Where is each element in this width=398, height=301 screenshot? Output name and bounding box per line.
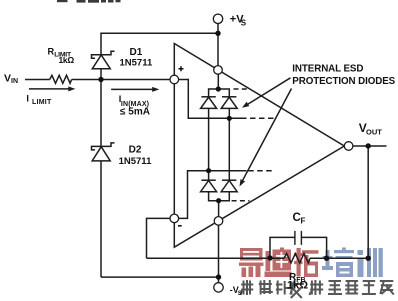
ESD diode triangle lower-right [221, 181, 237, 192]
svg-text:V: V [4, 72, 11, 84]
ILIMIT current arrow [29, 88, 69, 90]
svg-text:S: S [238, 290, 243, 297]
watermark row1 char tuo (red) [294, 248, 319, 277]
node: upper ESD cathode junction [216, 86, 221, 91]
watermark row2 slogan characters (gray) [241, 280, 394, 298]
op-amp +input pin circle [170, 75, 179, 84]
wire: output down to feedback row [367, 146, 369, 258]
svg-text:1N5711: 1N5711 [119, 156, 152, 167]
wire: rail to op-amp V+ pin [217, 33, 219, 65]
wire: CF branch left [270, 237, 295, 258]
node: +VS rail junction [215, 31, 220, 36]
wire: V+ pin to ESD cathode tee [217, 74, 219, 89]
wire: resistor to +input [72, 79, 171, 81]
svg-text:1N5711: 1N5711 [120, 57, 153, 68]
wire: -VS bottom rail [101, 276, 219, 278]
wire: -input internal to lower ESD row [179, 171, 247, 219]
wire: D1 anode to input node [100, 69, 102, 80]
op-amp V- pin circle [214, 217, 223, 226]
watermark row1 char di (red) [265, 248, 292, 278]
wire: output stub [353, 145, 387, 147]
label RFB [289, 272, 306, 284]
wire: top +VS rail [101, 33, 218, 54]
wire: V- pin to bottom rail [218, 225, 220, 277]
wire: -input external to feedback row [147, 218, 171, 258]
op-amp -input pin circle [170, 214, 179, 223]
ESD diode bar lower-right [222, 179, 236, 181]
watermark row1 char yi (red) [239, 248, 264, 277]
op-amp V+ pin circle [214, 66, 223, 75]
dashed continuation of V- net [232, 200, 250, 202]
node: feedback left junction [267, 255, 272, 260]
svg-text:OUT: OUT [366, 127, 382, 136]
svg-text:IN: IN [11, 78, 18, 85]
wire: VIN input to resistor [25, 79, 50, 81]
label -VS [230, 285, 243, 297]
arrowhead IIN(MAX) [152, 87, 159, 92]
diode D1 schottky bar [92, 51, 115, 58]
watermark row1 char xun (blue) [358, 248, 383, 277]
cropped caption fragment at top edge [57, 0, 121, 3]
label op-amp plus sign [179, 66, 184, 71]
label op-amp minus sign [178, 225, 182, 227]
svg-text:1kΩ: 1kΩ [287, 279, 308, 291]
label IIN(MAX) [119, 94, 149, 108]
resistor RLIMIT zigzag [50, 75, 72, 83]
wire: feedback row left segment [147, 257, 285, 259]
ESD diode bar upper-right [222, 96, 236, 98]
svg-text:≤ 5mA: ≤ 5mA [120, 107, 150, 118]
diode D1 triangle [92, 55, 110, 69]
ESD diode triangle lower-left [201, 181, 217, 192]
dashed continuation of V+ net [234, 88, 251, 90]
svg-text:S: S [241, 18, 247, 27]
IIN(MAX) current arrow [111, 88, 153, 90]
wire: input node down to D2 [100, 80, 102, 147]
label VOUT [359, 121, 382, 136]
arrowhead ILIMIT [68, 86, 75, 91]
terminal -VS circle [214, 283, 223, 292]
ESD diode triangle upper-left [201, 97, 217, 108]
wire: right ESD vertical [228, 108, 230, 180]
svg-text:INTERNAL ESD: INTERNAL ESD [292, 63, 363, 74]
node: -input ESD junction [206, 168, 211, 173]
dashed continuation of +input net [250, 117, 274, 119]
label +VS [230, 14, 247, 28]
svg-text:D2: D2 [129, 144, 142, 155]
watermark row1 char pei (blue) [322, 248, 354, 278]
wire: CF branch right [301, 237, 326, 258]
wire: D2 anode down to -VS rail [100, 161, 102, 277]
node: +input ESD junction [227, 116, 232, 121]
node: input junction [98, 77, 103, 82]
node: lower ESD anode junction [216, 198, 221, 203]
diode D2 schottky bar [92, 143, 115, 150]
capacitor CF plates [295, 231, 302, 245]
ESD diode bar lower-left [201, 179, 215, 181]
wire: left ESD vertical [208, 108, 210, 180]
node: output feedback junction [366, 256, 371, 261]
label RLIMIT [48, 47, 72, 59]
svg-text:LIMIT: LIMIT [32, 99, 52, 106]
wire: -VS terminal stem [218, 277, 220, 283]
arrowhead ESD lower [240, 179, 246, 186]
op-amp U1 triangle [174, 44, 344, 248]
ESD diode bar upper-left [201, 96, 215, 98]
arrow line to lower ESD pair [242, 89, 291, 181]
label ILIMIT [26, 94, 52, 107]
svg-text:PROTECTION DIODES: PROTECTION DIODES [292, 76, 395, 87]
node: output junction [366, 143, 371, 148]
wire: +input internal to upper ESD row [179, 80, 247, 119]
svg-text:F: F [301, 216, 306, 225]
label VIN [4, 72, 18, 85]
label CF [293, 212, 306, 225]
wire: lower ESD anode U link [209, 192, 230, 201]
arrowhead ESD upper [242, 102, 249, 108]
resistor RFB zigzag [284, 254, 310, 264]
op-amp output pin circle [344, 142, 353, 151]
svg-text:1kΩ: 1kΩ [59, 55, 75, 65]
terminal +VS circle [213, 14, 222, 23]
wire: +VS terminal stem [217, 24, 219, 34]
diode D2 triangle [92, 147, 110, 161]
dashed continuation of -input net [248, 170, 273, 172]
label INTERNAL ESD PROTECTION DIODES [292, 63, 395, 87]
wire: ESD U to V- pin [218, 201, 220, 217]
wire: feedback row right segment [310, 257, 368, 259]
arrow line to upper ESD pair [246, 78, 291, 106]
node: -VS rail junction [216, 274, 221, 279]
ESD diode triangle upper-right [221, 97, 237, 108]
node: CF right junction [324, 256, 329, 261]
wire: upper ESD cathode tee [209, 89, 230, 97]
svg-text:I: I [26, 94, 29, 104]
